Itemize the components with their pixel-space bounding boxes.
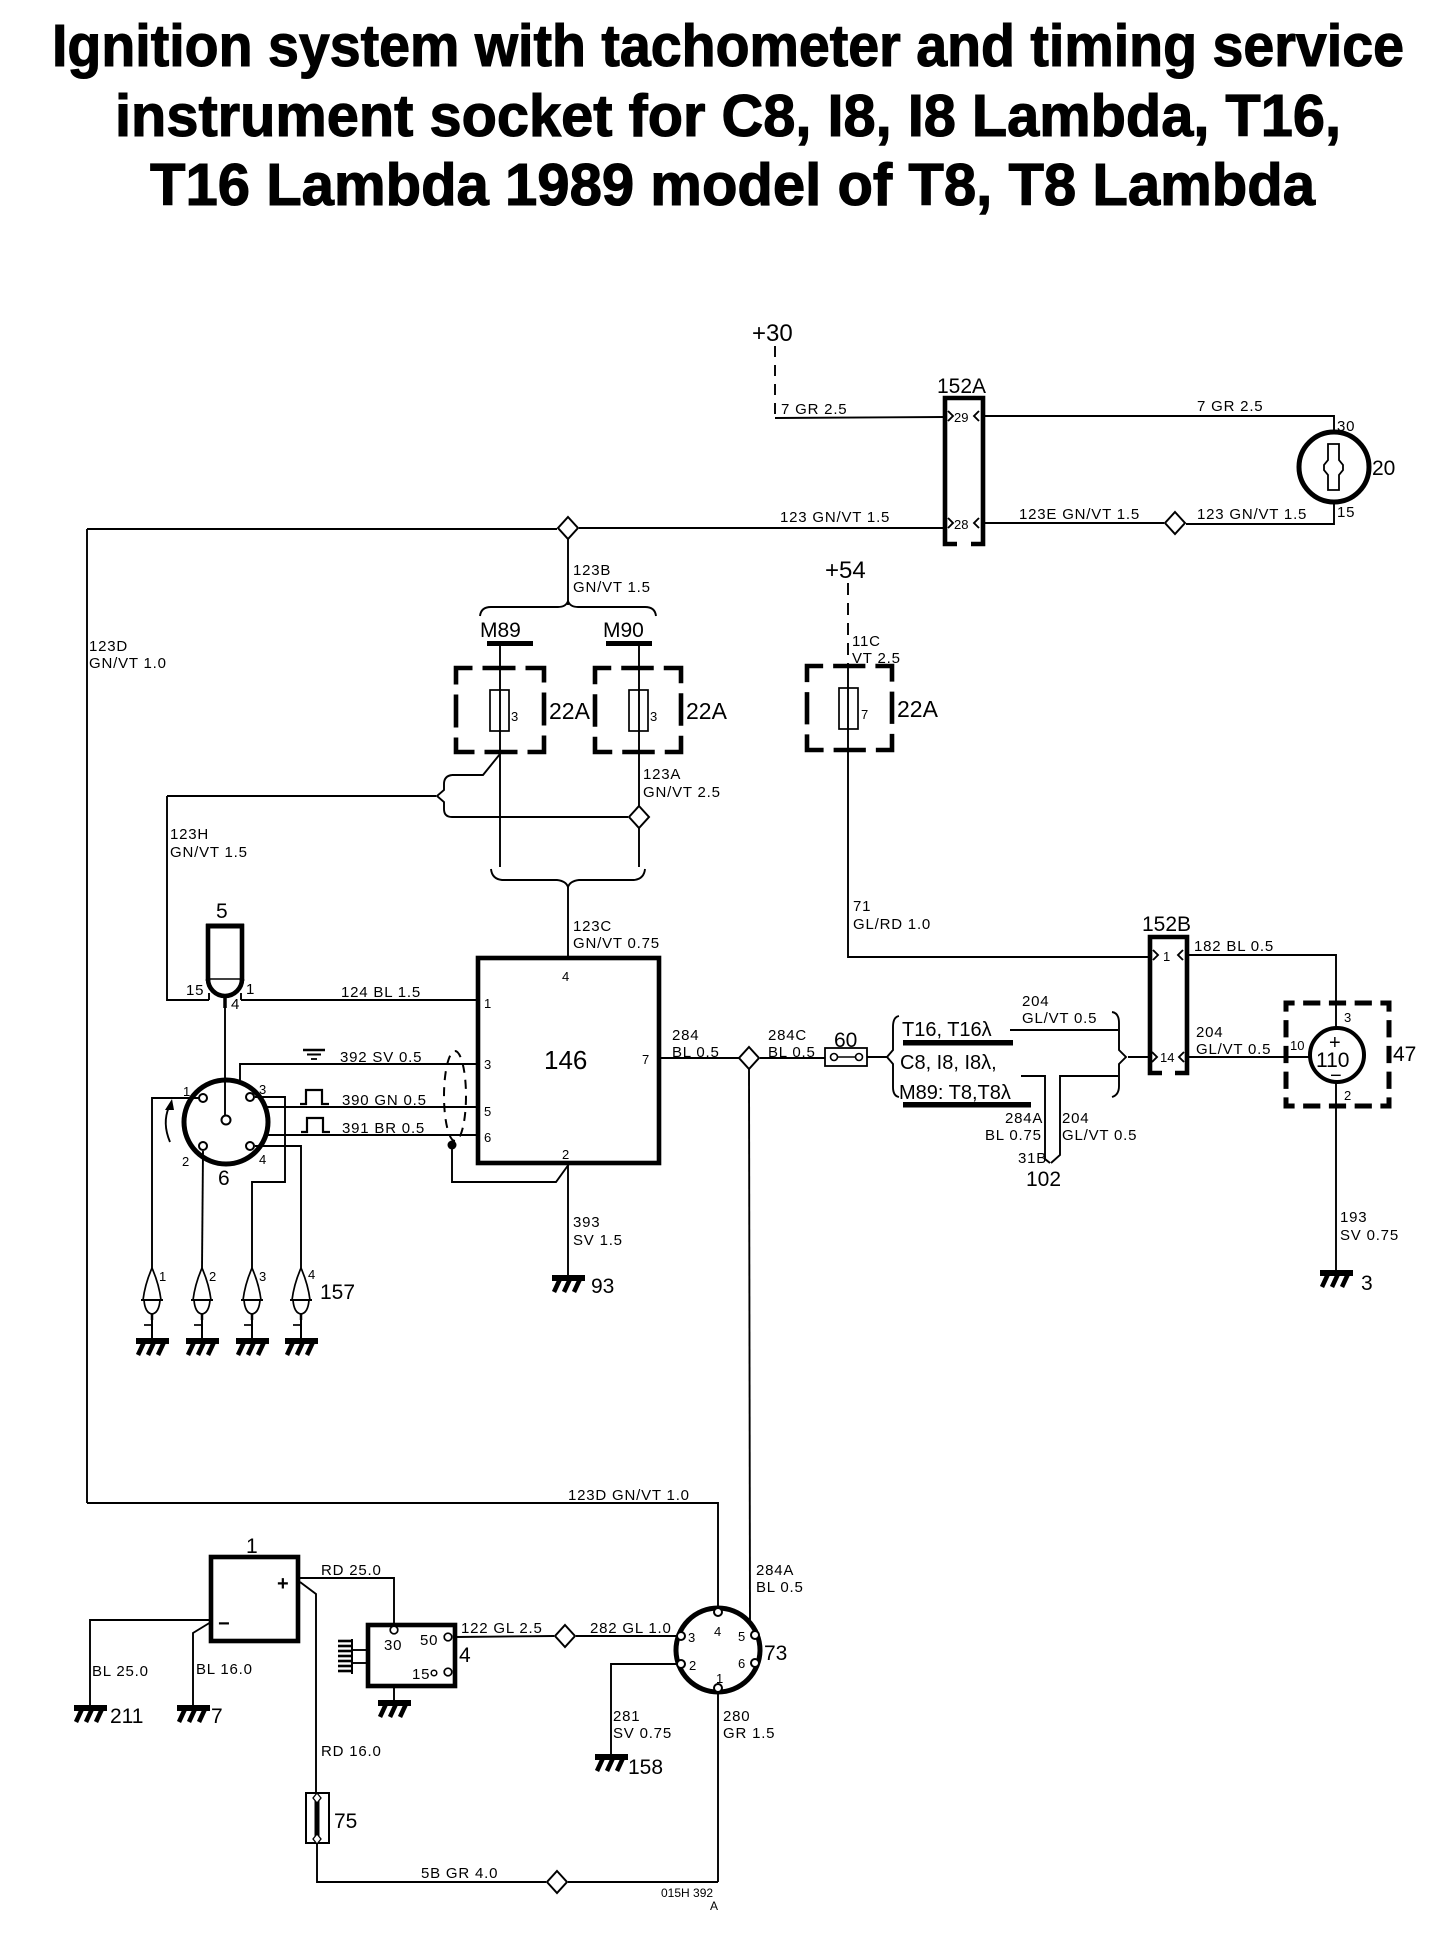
- svg-text:93: 93: [591, 1275, 614, 1298]
- svg-text:7 GR 2.5: 7 GR 2.5: [1197, 398, 1263, 415]
- svg-text:GN/VT 2.5: GN/VT 2.5: [643, 784, 721, 801]
- svg-text:BL 25.0: BL 25.0: [92, 1663, 149, 1680]
- svg-text:2: 2: [182, 1154, 189, 1169]
- wire +30 dashed drop: [774, 346, 776, 418]
- svg-text:30: 30: [1337, 418, 1355, 435]
- connector 152A: [945, 398, 983, 544]
- wire 284 BL 0.5: [659, 1057, 739, 1059]
- wire brace to 152B: [1128, 1056, 1150, 1058]
- svg-text:1: 1: [1163, 949, 1170, 964]
- brace split to M89/M90: [480, 601, 656, 616]
- svg-text:2: 2: [689, 1658, 696, 1673]
- svg-text:3: 3: [1344, 1010, 1351, 1025]
- svg-text:M90: M90: [603, 619, 644, 642]
- node diamond 122/282: [555, 1625, 575, 1647]
- svg-text:5: 5: [216, 900, 228, 923]
- svg-text:50: 50: [420, 1632, 438, 1649]
- timing socket 47: [1286, 1003, 1389, 1106]
- svg-text:+30: +30: [752, 320, 793, 347]
- ground spark plug 2: [186, 1341, 219, 1355]
- spark plug 1: [141, 1268, 163, 1339]
- svg-text:30: 30: [384, 1637, 402, 1654]
- ignition coil 22A (M89): [456, 668, 544, 752]
- svg-text:31B: 31B: [1018, 1150, 1047, 1167]
- wire M90 to merge: [638, 828, 640, 867]
- wire 123 main left segment: [87, 528, 557, 530]
- pin 2 of distributor: [199, 1142, 207, 1150]
- svg-text:15: 15: [186, 982, 204, 999]
- wire relay 4 ground: [393, 1686, 395, 1701]
- svg-text:SV 0.75: SV 0.75: [613, 1725, 672, 1742]
- wire shield to pin 2: [452, 1148, 569, 1182]
- svg-text:281: 281: [613, 1708, 640, 1725]
- svg-text:182 BL 0.5: 182 BL 0.5: [1194, 938, 1274, 955]
- wire M89 coil feed: [499, 646, 501, 668]
- svg-text:BL 0.5: BL 0.5: [768, 1044, 816, 1061]
- svg-text:390 GN 0.5: 390 GN 0.5: [342, 1092, 427, 1109]
- svg-text:2: 2: [1344, 1088, 1351, 1103]
- svg-text:15: 15: [1337, 504, 1355, 521]
- svg-text:152A: 152A: [937, 375, 986, 398]
- svg-text:3: 3: [259, 1082, 266, 1097]
- svg-text:T16, T16λ: T16, T16λ: [902, 1019, 992, 1041]
- svg-text:Ignition system with tachomete: Ignition system with tachometer and timi…: [52, 13, 1404, 79]
- spark plug 2: [191, 1268, 213, 1339]
- svg-text:102: 102: [1026, 1168, 1061, 1191]
- pulse mark 390: [300, 1090, 329, 1104]
- svg-text:5: 5: [738, 1629, 745, 1644]
- svg-text:204: 204: [1196, 1024, 1223, 1041]
- svg-text:28: 28: [954, 517, 968, 532]
- wire 123A GN/VT 2.5: [638, 668, 640, 752]
- fuse 60: [825, 1048, 867, 1066]
- wire 71 GL/RD 1.0: [848, 750, 1150, 957]
- wire 281 SV 0.75: [611, 1664, 677, 1755]
- wire 124 BL 1.5: [241, 999, 478, 1001]
- connector 152B: [1150, 937, 1187, 1073]
- svg-text:instrument socket for C8, I8,: instrument socket for C8, I8, I8 Lambda,…: [115, 83, 1341, 149]
- svg-text:124 BL 1.5: 124 BL 1.5: [341, 984, 421, 1001]
- svg-text:SV 1.5: SV 1.5: [573, 1232, 623, 1249]
- svg-text:3: 3: [650, 709, 657, 724]
- svg-text:15: 15: [412, 1666, 430, 1683]
- svg-text:22A: 22A: [897, 696, 939, 722]
- svg-text:5B GR 4.0: 5B GR 4.0: [421, 1865, 498, 1882]
- svg-text:3: 3: [259, 1269, 266, 1284]
- ignition coil 22A (M90): [595, 668, 681, 752]
- spark plug 4: [290, 1268, 312, 1339]
- cable shield: [444, 1051, 466, 1141]
- pin 4 of 73: [714, 1608, 722, 1616]
- svg-text:393: 393: [573, 1214, 600, 1231]
- wire 204 GL/VT 0.5 to node 31B: [1051, 1076, 1118, 1163]
- wire BL 25.0: [90, 1620, 211, 1706]
- svg-text:14: 14: [1160, 1050, 1174, 1065]
- svg-text:T16 Lambda 1989 model of T8, T: T16 Lambda 1989 model of T8, T8 Lambda: [150, 152, 1316, 218]
- wire 7 GR 2.5 right: [983, 416, 1334, 432]
- wire 282 GL 1.0: [576, 1635, 677, 1637]
- ground spark plug 1: [136, 1341, 169, 1355]
- svg-text:284A: 284A: [1005, 1110, 1043, 1127]
- ground 93: [552, 1278, 585, 1292]
- ground 211: [74, 1708, 107, 1722]
- wire 123E GN/VT 1.5: [983, 522, 1164, 524]
- svg-text:204: 204: [1022, 993, 1049, 1010]
- svg-text:29: 29: [954, 410, 968, 425]
- svg-text:4: 4: [459, 1644, 471, 1667]
- svg-text:3: 3: [1361, 1272, 1373, 1295]
- brace 123H split: [437, 775, 452, 817]
- svg-text:6: 6: [218, 1167, 230, 1190]
- wire fuse to variant brace: [867, 1056, 888, 1058]
- svg-text:123D GN/VT 1.0: 123D GN/VT 1.0: [568, 1487, 690, 1504]
- wire 182 BL 0.5: [1187, 955, 1336, 1009]
- svg-text:1: 1: [159, 1269, 166, 1284]
- wire 123D GN/VT 1.0 bottom run: [87, 1503, 718, 1608]
- wire RD 16.0: [300, 1582, 316, 1793]
- wire plug lead 1: [152, 1098, 199, 1268]
- wire 123D GN/VT 1.0 long left vertical: [86, 529, 88, 1503]
- svg-text:7 GR 2.5: 7 GR 2.5: [781, 401, 847, 418]
- brace variant merge: [1112, 1012, 1126, 1097]
- wire 391 BR 0.5: [266, 1134, 478, 1136]
- svg-text:GL/VT 0.5: GL/VT 0.5: [1062, 1127, 1137, 1144]
- pin 1 of 73: [714, 1684, 722, 1692]
- pin 5 of 73: [751, 1631, 759, 1639]
- control unit 146: [478, 958, 659, 1163]
- svg-text:RD 16.0: RD 16.0: [321, 1743, 382, 1760]
- svg-text:1: 1: [246, 1535, 258, 1558]
- pin 3 of distributor: [246, 1093, 254, 1101]
- svg-text:204: 204: [1062, 1110, 1089, 1127]
- svg-text:22A: 22A: [549, 698, 591, 724]
- pin 1 of 152B: [1153, 950, 1158, 960]
- wire through coil +54: [847, 666, 849, 750]
- wire 5B right segment: [568, 1881, 718, 1883]
- svg-text:122 GL 2.5: 122 GL 2.5: [461, 1620, 543, 1637]
- wire 284A BL 0.75 to node 31B: [1021, 1076, 1050, 1163]
- title: [52, 13, 1404, 218]
- svg-text:123B: 123B: [573, 562, 611, 579]
- svg-text:M89: M89: [480, 619, 521, 642]
- ground spark plug 3: [236, 1341, 269, 1355]
- ground 158: [595, 1757, 628, 1771]
- wire plug lead 4: [255, 1146, 301, 1268]
- svg-text:BL 0.5: BL 0.5: [672, 1044, 720, 1061]
- fuse 75: [306, 1793, 329, 1843]
- wire 390 GN 0.5: [265, 1106, 478, 1108]
- wire BL 16.0: [193, 1622, 211, 1706]
- svg-text:4: 4: [308, 1267, 315, 1282]
- svg-text:GL/VT 0.5: GL/VT 0.5: [1196, 1041, 1271, 1058]
- svg-text:7: 7: [861, 707, 868, 722]
- pin 30 of 4: [390, 1626, 398, 1634]
- svg-text:A: A: [710, 1899, 718, 1913]
- svg-text:123A: 123A: [643, 766, 681, 783]
- wire 284C BL 0.5: [760, 1057, 825, 1059]
- svg-text:284A: 284A: [756, 1562, 794, 1579]
- svg-text:+54: +54: [825, 557, 866, 584]
- svg-text:GN/VT 1.5: GN/VT 1.5: [170, 844, 248, 861]
- svg-text:280: 280: [723, 1708, 750, 1725]
- svg-text:3: 3: [484, 1057, 491, 1072]
- svg-text:−: −: [218, 1613, 230, 1635]
- solenoid comb of 4: [351, 1639, 353, 1674]
- wire 123H GN/VT 1.5: [167, 795, 436, 797]
- svg-text:+: +: [277, 1573, 289, 1595]
- wire brace to M89 coil: [452, 754, 500, 775]
- svg-text:60: 60: [834, 1029, 857, 1052]
- svg-text:GN/VT 1.5: GN/VT 1.5: [573, 579, 651, 596]
- pin 4 of distributor: [246, 1142, 254, 1150]
- svg-text:10: 10: [1290, 1038, 1304, 1053]
- battery 1: [211, 1557, 298, 1641]
- connector 73: [676, 1608, 760, 1692]
- wire through coil M89: [499, 668, 501, 752]
- ignition coil 22A (+54): [807, 666, 892, 750]
- distributor 6: [184, 1080, 268, 1164]
- svg-text:GN/VT 1.0: GN/VT 1.0: [89, 655, 167, 672]
- svg-text:2: 2: [209, 1269, 216, 1284]
- svg-text:SV 0.75: SV 0.75: [1340, 1227, 1399, 1244]
- pulse mark 391: [301, 1118, 330, 1132]
- svg-text:6: 6: [738, 1656, 745, 1671]
- wire coil5 to distributor rotor: [224, 1008, 226, 1116]
- brace variant split: [887, 1016, 899, 1097]
- wire 204 GL/VT 0.5 right: [1187, 1056, 1311, 1058]
- splice diamond: [1165, 512, 1185, 534]
- svg-text:158: 158: [628, 1756, 663, 1779]
- svg-text:6: 6: [484, 1130, 491, 1145]
- svg-text:4: 4: [231, 996, 240, 1013]
- wire 7 GR 2.5 left: [775, 417, 945, 418]
- svg-text:4: 4: [714, 1624, 721, 1639]
- pin 2 of 73: [677, 1660, 685, 1668]
- svg-text:11C: 11C: [852, 633, 881, 650]
- svg-text:RD 25.0: RD 25.0: [321, 1562, 382, 1579]
- wire brace to 123A diamond: [452, 816, 628, 818]
- svg-text:146: 146: [544, 1045, 587, 1075]
- svg-text:73: 73: [764, 1642, 787, 1665]
- svg-text:123C: 123C: [573, 918, 612, 935]
- wire 392 SV 0.5: [240, 1064, 478, 1082]
- svg-text:C8, I8, I8λ,: C8, I8, I8λ,: [900, 1052, 997, 1074]
- svg-text:392 SV 0.5: 392 SV 0.5: [340, 1049, 422, 1066]
- wire +54 dashed drop: [847, 583, 849, 666]
- svg-text:3: 3: [511, 709, 518, 724]
- wire M90 coil feed: [638, 646, 640, 668]
- ground 7: [177, 1708, 210, 1722]
- svg-text:GL/VT 0.5: GL/VT 0.5: [1022, 1010, 1097, 1027]
- svg-text:391 BR 0.5: 391 BR 0.5: [342, 1120, 425, 1137]
- svg-text:22A: 22A: [686, 698, 728, 724]
- wire 393 SV 1.5: [567, 1163, 569, 1276]
- merge brace to 123C: [491, 869, 645, 887]
- wire 123 GN/VT 1.5 main: [579, 527, 945, 529]
- pin 29 of 152A: [948, 411, 953, 421]
- rotation arrow: [166, 1107, 170, 1142]
- wire 284A BL 0.5 vertical: [749, 1069, 750, 1622]
- wire 193 SV 0.75: [1335, 1082, 1337, 1271]
- pin 6 of 73: [751, 1659, 759, 1667]
- wire 5B GR 4.0: [317, 1843, 546, 1882]
- svg-text:157: 157: [320, 1281, 355, 1304]
- svg-text:BL 16.0: BL 16.0: [196, 1661, 253, 1678]
- svg-text:123 GN/VT 1.5: 123 GN/VT 1.5: [1197, 506, 1307, 523]
- ground relay 4: [378, 1703, 411, 1717]
- node diamond 123B: [558, 517, 578, 539]
- svg-text:M89: T8,T8λ: M89: T8,T8λ: [899, 1082, 1011, 1104]
- wire RD 25.0: [298, 1578, 394, 1626]
- svg-text:1: 1: [183, 1084, 190, 1099]
- wire 122 GL 2.5: [455, 1636, 554, 1637]
- svg-text:284: 284: [672, 1027, 699, 1044]
- wire plug lead 3: [252, 1097, 285, 1268]
- node shield junction: [448, 1141, 457, 1150]
- wire 123H down to coil 5: [167, 796, 209, 1000]
- wire 123 GN/VT 1.5 right: [1186, 502, 1334, 524]
- svg-text:7: 7: [211, 1705, 223, 1728]
- starter relay 4: [368, 1625, 455, 1686]
- svg-text:GN/VT 0.75: GN/VT 0.75: [573, 935, 660, 952]
- svg-text:123H: 123H: [170, 826, 209, 843]
- svg-text:015H 392: 015H 392: [661, 1886, 713, 1900]
- svg-text:123D: 123D: [89, 638, 128, 655]
- svg-text:BL 0.5: BL 0.5: [756, 1579, 804, 1596]
- svg-text:20: 20: [1372, 457, 1395, 480]
- svg-text:152B: 152B: [1142, 913, 1191, 936]
- pin 3 of 73: [677, 1632, 685, 1640]
- svg-text:7: 7: [642, 1052, 649, 1067]
- node diamond 284: [739, 1047, 759, 1069]
- svg-text:75: 75: [334, 1810, 357, 1833]
- ground 3: [1320, 1273, 1353, 1287]
- node diamond 123A: [629, 806, 649, 828]
- svg-text:123E GN/VT 1.5: 123E GN/VT 1.5: [1019, 506, 1140, 523]
- wire 123C GN/VT 0.75: [567, 886, 569, 958]
- pin 28 of 152A: [948, 518, 953, 528]
- wire 204 GL/VT 0.5 upper: [1010, 1029, 1118, 1031]
- wire M89 coil to merge: [499, 752, 501, 867]
- svg-text:47: 47: [1393, 1043, 1416, 1066]
- svg-text:211: 211: [110, 1705, 143, 1728]
- svg-text:1: 1: [716, 1671, 723, 1686]
- ignition switch 20: [1299, 432, 1369, 502]
- earth mark 392: [303, 1050, 325, 1059]
- ground spark plug 4: [285, 1341, 318, 1355]
- svg-text:5: 5: [484, 1104, 491, 1119]
- svg-text:GR 1.5: GR 1.5: [723, 1725, 775, 1742]
- svg-text:284C: 284C: [768, 1027, 807, 1044]
- wire 123B GN/VT 1.5: [567, 539, 569, 605]
- svg-text:1: 1: [484, 996, 491, 1011]
- wire plug lead 2: [202, 1151, 203, 1268]
- pin 1 of distributor: [199, 1094, 207, 1102]
- svg-text:4: 4: [259, 1152, 266, 1167]
- svg-text:193: 193: [1340, 1209, 1367, 1226]
- svg-text:3: 3: [688, 1630, 695, 1645]
- svg-text:BL 0.75: BL 0.75: [985, 1127, 1042, 1144]
- node diamond 5B: [547, 1871, 567, 1893]
- wire 280 GR 1.5: [717, 1692, 719, 1882]
- svg-text:1: 1: [246, 981, 255, 998]
- spark plug 3: [241, 1268, 263, 1339]
- pin 14 of 152B: [1152, 1052, 1157, 1062]
- svg-text:123 GN/VT 1.5: 123 GN/VT 1.5: [780, 509, 890, 526]
- svg-text:GL/RD 1.0: GL/RD 1.0: [853, 916, 931, 933]
- svg-text:4: 4: [562, 969, 569, 984]
- svg-text:2: 2: [562, 1147, 569, 1162]
- svg-text:71: 71: [853, 898, 871, 915]
- svg-text:282 GL 1.0: 282 GL 1.0: [590, 1620, 672, 1637]
